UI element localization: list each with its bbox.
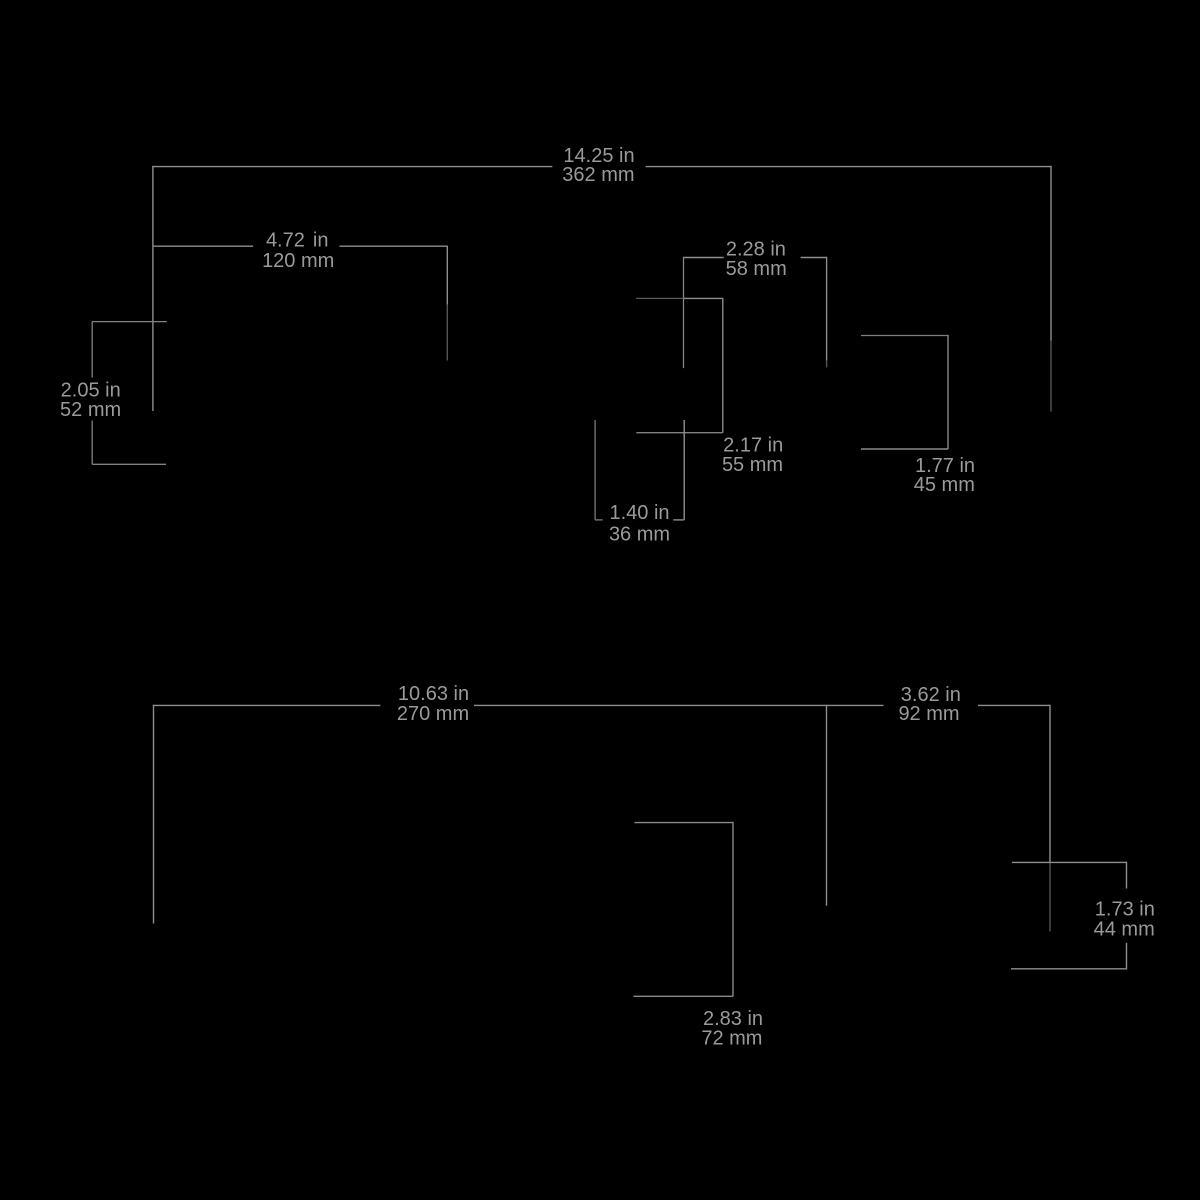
bracket 2.83in right vertical	[732, 822, 734, 996]
bracket 2.17in right vertical	[722, 298, 724, 433]
extension line right of 3.62in dim part	[1049, 862, 1051, 931]
svg-text:362 mm: 362 mm	[562, 164, 634, 186]
dimension 14.25in horizontal line left segment	[152, 166, 552, 168]
dimension 10.63in horizontal line left segment	[153, 704, 381, 706]
extension line right of 3.62in bright part	[1049, 705, 1051, 863]
svg-text:58 mm: 58 mm	[726, 258, 787, 280]
svg-text:55 mm: 55 mm	[722, 454, 783, 476]
bracket 1.77in bottom horizontal	[861, 448, 948, 450]
svg-text:4.72 in: 4.72 in	[266, 229, 329, 251]
bracket 1.77in right vertical	[947, 335, 949, 449]
dimension 3.62in horizontal right segment	[978, 704, 1050, 706]
dimension 10.63in-3.62in horizontal middle segment	[474, 704, 884, 706]
dimension 14.25in horizontal line right segment	[646, 166, 1052, 168]
extension line right of 2.28in dim tip	[826, 360, 828, 367]
dimension 2.28in horizontal left segment	[684, 257, 724, 259]
svg-text:36 mm: 36 mm	[609, 524, 670, 546]
bracket 1.73in bottom horizontal	[1011, 968, 1127, 970]
svg-text:10.63 in: 10.63 in	[398, 683, 469, 705]
dimension 4.72in horizontal line right segment	[339, 245, 447, 247]
svg-text:44 mm: 44 mm	[1094, 919, 1155, 941]
dimension 2.28in horizontal right segment	[801, 257, 827, 259]
svg-text:270 mm: 270 mm	[397, 703, 469, 725]
bracket 2.05in left vertical upper	[91, 322, 93, 378]
extension line left of 2.28in	[683, 257, 685, 368]
bracket 2.83in bottom horizontal	[633, 995, 733, 997]
extension line of 4.72in bright part	[446, 246, 448, 305]
bracket 2.17in bottom horizontal	[636, 432, 723, 434]
dimension 1.40in right vertical	[683, 420, 685, 520]
bracket 2.17in top horizontal dim left part	[636, 297, 684, 299]
extension line left of 14.25in	[152, 166, 154, 411]
svg-text:92 mm: 92 mm	[898, 703, 959, 725]
bracket 2.05in bottom horizontal	[92, 463, 166, 465]
svg-text:72 mm: 72 mm	[701, 1028, 762, 1050]
dimension 1.40in left bottom tick	[595, 519, 603, 521]
extension line right of 2.28in bright part	[826, 257, 828, 361]
svg-text:52 mm: 52 mm	[60, 399, 121, 421]
bracket 2.05in top horizontal	[92, 321, 167, 323]
bracket 1.73in right vertical lower	[1126, 943, 1128, 970]
bracket 1.73in top horizontal	[1012, 861, 1127, 863]
extension line middle shared by 10.63in and 3.62in	[826, 705, 828, 906]
bracket 2.83in top horizontal	[635, 822, 734, 824]
bracket 1.73in right vertical upper	[1126, 862, 1128, 889]
bracket 2.05in left vertical lower	[91, 421, 93, 465]
bracket 1.77in top horizontal	[861, 335, 948, 337]
dimension 1.40in left vertical	[594, 420, 596, 520]
svg-text:1.40 in: 1.40 in	[609, 502, 669, 524]
bracket 2.17in top horizontal bright right part	[684, 297, 723, 299]
svg-text:120 mm: 120 mm	[262, 250, 334, 272]
svg-text:45 mm: 45 mm	[914, 474, 975, 496]
dimension 1.40in right bottom tick	[673, 519, 684, 521]
extension line left of 10.63in	[153, 705, 155, 924]
extension line of 4.72in dim part	[446, 305, 448, 361]
dimension 4.72in horizontal line left segment	[153, 245, 253, 247]
extension line right of 14.25in bright part	[1050, 166, 1052, 341]
extension line right of 14.25in dim part	[1050, 341, 1052, 412]
svg-text:1.73 in: 1.73 in	[1095, 899, 1155, 921]
